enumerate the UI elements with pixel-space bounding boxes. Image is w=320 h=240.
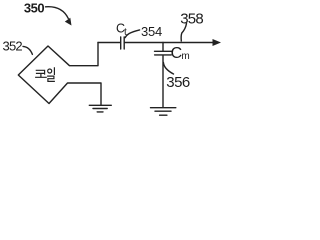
svg-text:356: 356 [166,74,190,91]
svg-text:358: 358 [180,11,203,28]
svg-text:354: 354 [141,24,162,39]
svg-text:m: m [181,51,189,62]
svg-text:352: 352 [3,39,23,54]
svg-text:t: t [124,27,127,38]
svg-text:350: 350 [24,0,44,15]
